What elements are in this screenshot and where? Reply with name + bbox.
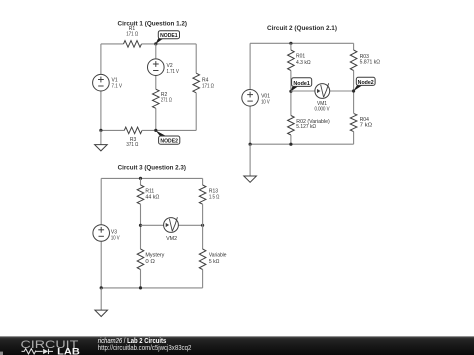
resistor R4 (193, 73, 200, 93)
label VM2 (166, 236, 177, 242)
label Variable (209, 253, 227, 265)
footer line 2: url (98, 345, 192, 352)
wire: C3 right branch lowest (202, 270, 204, 288)
wire: C2 right branch mid (353, 71, 355, 114)
footer line 1: richam26 / Lab 2 Circuits (98, 338, 167, 345)
svg-text:1.71 V: 1.71 V (167, 69, 180, 75)
label R11 (145, 189, 159, 201)
voltmeter VM2 (164, 217, 179, 232)
footer corner notch (0, 352, 3, 355)
wire: C1 right branch upper (195, 44, 197, 73)
svg-text:V3: V3 (111, 230, 117, 236)
label V1 value (112, 77, 123, 89)
junction: C3 mid top (139, 177, 142, 180)
node NODE1 flag (155, 31, 179, 45)
resistor R2 (153, 89, 160, 108)
logo CIRCUIT text (21, 339, 79, 351)
resistor R13 (199, 185, 206, 204)
label V2 (167, 63, 180, 75)
label VM1 (315, 101, 331, 113)
svg-text:NODE2: NODE2 (160, 139, 178, 145)
junction: C3 mid meter tap (139, 224, 142, 227)
wire: VM2 right lead (171, 224, 203, 226)
wire: C2 left vertical upper (249, 43, 251, 98)
wire: C1 bottom right segment (142, 129, 196, 131)
label V3 (111, 230, 120, 242)
label R04 (360, 117, 373, 129)
svg-text:171 Ω: 171 Ω (202, 83, 214, 89)
resistor Mystery (137, 249, 144, 270)
svg-text:VM2: VM2 (166, 236, 177, 242)
wire: VM1 left lead (291, 90, 322, 92)
svg-text:44 kΩ: 44 kΩ (145, 195, 159, 201)
svg-text:Node2: Node2 (358, 80, 374, 86)
resistor R3 (124, 127, 142, 134)
svg-text:http://circuitlab.com/c5jwcj3x: http://circuitlab.com/c5jwcj3x83cq2 (98, 345, 192, 352)
voltage source V3 (93, 225, 110, 242)
wire: C3 right branch middle (202, 204, 204, 249)
label R1 (126, 26, 138, 37)
junction: C2 mid top (289, 42, 292, 45)
junction: C2 node2 (352, 89, 355, 92)
wire: C1 left vertical top (node1 top-left to V1) (100, 44, 102, 83)
junction: C3 bottom left (100, 286, 103, 289)
wire: C3 left vertical upper (100, 178, 102, 233)
label R13 (209, 189, 220, 201)
svg-text:Mystery: Mystery (145, 253, 165, 259)
svg-text:Circuit 2 (Question 2.1): Circuit 2 (Question 2.1) (267, 25, 337, 32)
svg-text:1.5 Ω: 1.5 Ω (209, 195, 220, 201)
wire: C1 middle lower (155, 108, 157, 130)
wire: C1 top mid segment (142, 43, 197, 45)
svg-text:Node1: Node1 (293, 81, 310, 87)
label R2 (161, 92, 172, 103)
svg-text:NODE1: NODE1 (160, 33, 178, 39)
node NODE2 flag (155, 130, 179, 144)
label Mystery (145, 253, 165, 265)
voltage source V01 (242, 90, 259, 107)
junction: C2 node1 (289, 90, 292, 93)
wire: C2 right branch upper (353, 43, 355, 50)
svg-text:Circuit 3 (Question 2.3): Circuit 3 (Question 2.3) (118, 164, 186, 171)
svg-text:7.1 V: 7.1 V (112, 83, 123, 89)
wire: C1 middle branch upper (155, 44, 157, 67)
label R02 (296, 119, 330, 130)
label V01 (261, 93, 270, 105)
svg-text:0.000 V: 0.000 V (315, 107, 331, 113)
ground C3 (95, 288, 108, 317)
svg-text:LAB: LAB (57, 346, 80, 355)
wire: C2 top wire (250, 42, 354, 44)
svg-text:0 Ω: 0 Ω (145, 259, 155, 265)
svg-text:10 V: 10 V (111, 236, 120, 242)
junction: C3 right meter tap (201, 224, 204, 227)
node Node2 flag (353, 77, 375, 91)
voltmeter VM1 (315, 83, 330, 98)
svg-text:5.871 kΩ: 5.871 kΩ (360, 60, 381, 66)
wire: C3 mid branch upper (140, 178, 142, 185)
svg-text:R01: R01 (296, 54, 305, 60)
wire: C3 mid branch middle (140, 204, 142, 249)
wire: C1 right branch lower (195, 93, 197, 131)
svg-text:V01: V01 (261, 93, 270, 99)
wire: VM2 left lead (141, 224, 172, 226)
label R03 (360, 54, 381, 65)
wire: C3 mid branch lowest (140, 270, 142, 288)
ground C2 (244, 144, 257, 182)
wire: C2 left vertical lower (249, 98, 251, 144)
node Node1 flag (290, 78, 311, 92)
wire: C1 top left segment (101, 43, 124, 45)
wire: C2 right branch lowest (353, 132, 355, 145)
wire: C3 bottom wire (101, 287, 202, 289)
label R01 (296, 54, 311, 66)
resistor R11 (137, 185, 144, 204)
wire: C1 bottom left segment (101, 129, 124, 131)
resistor R03 (350, 50, 357, 71)
wire: C2 mid branch lowest (290, 135, 292, 144)
junction: C2 bottom left (249, 143, 252, 146)
resistor Variable (199, 249, 206, 270)
wire: C3 right branch upper (202, 178, 204, 185)
svg-text:5 kΩ: 5 kΩ (209, 259, 220, 265)
voltage source V2 (148, 59, 165, 76)
wire: C2 bottom wire (250, 143, 354, 145)
junction: C3 bottom mid (139, 286, 142, 289)
logo LAB text (57, 346, 80, 355)
svg-text:4.3 kΩ: 4.3 kΩ (296, 60, 311, 66)
logo resistor zigzag and diode (22, 349, 54, 355)
svg-text:371 Ω: 371 Ω (126, 142, 138, 148)
wire: VM1 right lead (322, 90, 353, 92)
svg-text:10 V: 10 V (261, 99, 270, 105)
svg-text:171 Ω: 171 Ω (126, 31, 138, 37)
svg-text:271 Ω: 271 Ω (161, 97, 172, 103)
wire: C2 mid branch upper (290, 43, 292, 50)
junction: C1 node2 bottom (154, 129, 157, 132)
resistor R04 (350, 113, 357, 131)
svg-text:richam26 / Lab 2 Circuits: richam26 / Lab 2 Circuits (98, 338, 167, 345)
wire: C3 left vertical lower (100, 233, 102, 288)
wire: C1 left vertical bottom (100, 83, 102, 131)
svg-text:7 kΩ: 7 kΩ (360, 123, 373, 129)
wire: C2 mid branch to node1 (290, 71, 292, 116)
junction: C1 ground node (99, 129, 102, 132)
label R3 (126, 137, 138, 148)
voltage source V1 (93, 74, 110, 91)
label R4 (202, 77, 214, 89)
ground C1 (95, 130, 108, 151)
resistor R1 (124, 41, 142, 48)
svg-text:5.127 kΩ: 5.127 kΩ (296, 124, 316, 130)
wire: C1 middle between V2 and R2 (155, 67, 157, 89)
svg-text:R4: R4 (202, 77, 209, 83)
footer bar (0, 336, 474, 355)
wire: C3 top wire (101, 177, 202, 179)
junction: C1 node1 top (154, 42, 157, 45)
resistor R02 (Variable) (288, 116, 295, 136)
resistor R01 (288, 50, 295, 71)
svg-text:Variable: Variable (209, 253, 227, 259)
junction: C2 bottom mid (289, 143, 292, 146)
